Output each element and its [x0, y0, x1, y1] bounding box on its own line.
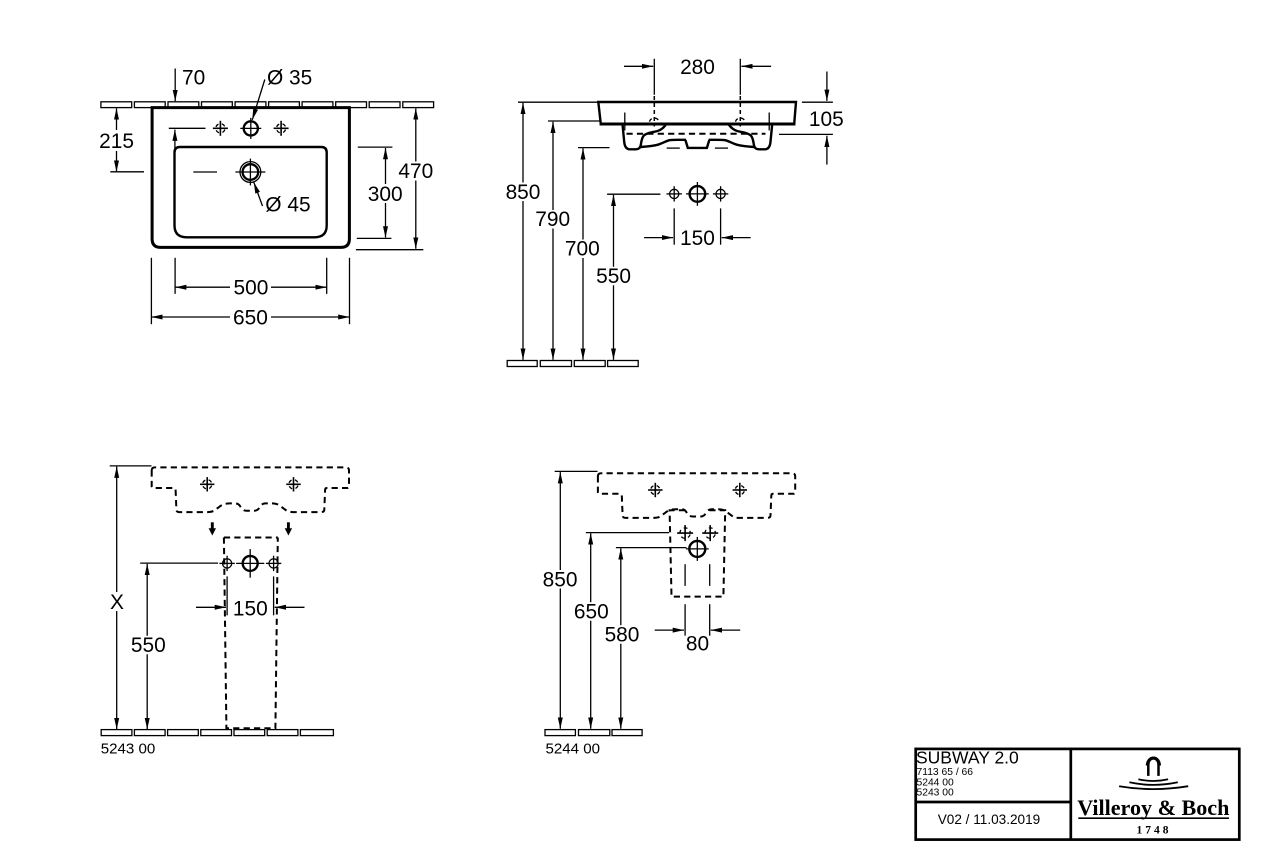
- dim 70 lower arrow: [174, 130, 176, 152]
- hidden basin silhouette (translated copy of view C shape): [598, 473, 795, 518]
- mounting arrow right: [285, 522, 292, 535]
- dim 105: [779, 72, 844, 165]
- cover drain hole: [686, 537, 709, 561]
- svg-text:Villeroy & Boch: Villeroy & Boch: [1077, 795, 1229, 820]
- dim 500: [175, 277, 327, 300]
- hidden bowl edge right: [768, 113, 770, 131]
- svg-text:650: 650: [574, 601, 609, 624]
- floor tile band (view B): [507, 361, 638, 367]
- horizontal divider: [916, 801, 1071, 804]
- wall fixing hole right (view D): [733, 483, 747, 497]
- title block frame: [916, 749, 1240, 840]
- svg-text:550: 550: [596, 265, 631, 288]
- tap hole row: right hole: [713, 186, 728, 201]
- svg-text:580: 580: [605, 624, 640, 647]
- pedestal tap hole centre: [236, 549, 264, 578]
- dim 550 (view C): [130, 563, 219, 729]
- svg-text:5243 00: 5243 00: [101, 740, 156, 757]
- wall fixing hole left (view C): [200, 477, 214, 491]
- dim 580 (view D): [603, 548, 686, 729]
- waste drain hole: [235, 159, 265, 186]
- understructure (left half + mirror): [623, 125, 698, 150]
- dim 150 (view B): [644, 208, 751, 250]
- centre tap hole: [240, 118, 261, 139]
- pedestal tap hole left: [219, 556, 234, 571]
- dim 80: [655, 604, 741, 655]
- dim 850 (view B): [506, 102, 599, 360]
- svg-text:SUBWAY 2.0: SUBWAY 2.0: [916, 748, 1019, 768]
- svg-text:500: 500: [233, 277, 268, 300]
- svg-text:650: 650: [233, 307, 268, 330]
- floor tile band (view D): [545, 730, 642, 736]
- basin rim slab: [598, 102, 796, 124]
- hidden bowl edge left: [624, 113, 626, 131]
- hidden waste pipe lines: [684, 564, 686, 586]
- svg-text:5244 00: 5244 00: [546, 740, 601, 757]
- tap hole centreline: [169, 127, 206, 129]
- svg-text:Ø 45: Ø 45: [265, 194, 310, 217]
- pedestal tap hole right: [266, 556, 281, 571]
- leader line D35: [252, 80, 264, 120]
- siphon cover outline: [670, 510, 726, 596]
- logo underline: [1078, 817, 1229, 819]
- svg-text:790: 790: [535, 208, 570, 231]
- svg-text:X: X: [110, 591, 124, 614]
- tap hole row: left hole: [667, 186, 682, 201]
- left punched tap hole: [213, 121, 228, 136]
- pedestal outline: [224, 537, 278, 539]
- mounting arrow left: [209, 522, 216, 535]
- dim 70 upper arrow: [174, 69, 176, 102]
- wall tile band: [101, 102, 434, 108]
- dim 215: [99, 108, 144, 172]
- drain centreline: [193, 171, 217, 173]
- svg-text:5243 00: 5243 00: [917, 787, 954, 798]
- svg-text:105: 105: [809, 108, 844, 131]
- wall fixing hole right (view C): [286, 477, 300, 491]
- dim 850 (view D): [543, 471, 598, 728]
- svg-text:470: 470: [398, 160, 433, 183]
- dim 650 (view D): [573, 533, 669, 729]
- dim 650: [151, 307, 349, 330]
- svg-text:300: 300: [368, 183, 403, 206]
- inner bowl: [175, 147, 327, 237]
- svg-text:Ø 35: Ø 35: [267, 67, 312, 90]
- svg-text:7113 65 / 66: 7113 65 / 66: [917, 767, 974, 778]
- extension lines below basin: [150, 258, 152, 324]
- svg-text:550: 550: [131, 634, 166, 657]
- svg-text:150: 150: [233, 597, 268, 620]
- dim 550 (view B): [596, 194, 660, 360]
- svg-text:850: 850: [506, 181, 541, 204]
- svg-text:700: 700: [565, 238, 600, 261]
- hidden basin silhouette: [152, 467, 349, 512]
- wall hole arc right: [735, 118, 745, 123]
- svg-text:1748: 1748: [1137, 824, 1172, 836]
- dim 150 (view C): [196, 576, 305, 620]
- right punched tap hole: [274, 121, 289, 136]
- dim 470: [356, 108, 435, 249]
- hole axis dashed left: [653, 96, 655, 127]
- dim X: [106, 466, 152, 729]
- svg-text:280: 280: [680, 56, 715, 79]
- svg-text:70: 70: [182, 67, 205, 90]
- hole axis dashed right: [739, 96, 741, 127]
- hidden mounting line: [627, 133, 766, 135]
- cover tap hole left: [677, 525, 693, 541]
- dim 700 (view B): [565, 148, 610, 360]
- wall hole arc left: [649, 118, 659, 123]
- vertical divider: [1069, 749, 1072, 840]
- leader line D45: [254, 182, 263, 206]
- logo ripple arcs: [1138, 779, 1168, 781]
- dim 300: [357, 147, 404, 238]
- svg-text:V02 / 11.03.2019: V02 / 11.03.2019: [938, 812, 1041, 827]
- svg-text:215: 215: [99, 130, 134, 153]
- dim 790 (view B): [535, 121, 600, 360]
- svg-text:80: 80: [686, 632, 709, 655]
- dim 280 extension lines: [653, 59, 655, 95]
- floor tile band (view C): [101, 730, 333, 736]
- dim 280: [624, 65, 653, 67]
- logo fountain arch: [1147, 757, 1161, 776]
- cover tap hole right: [702, 525, 718, 541]
- basin outer rim: [152, 108, 349, 248]
- svg-text:850: 850: [543, 569, 578, 592]
- wall fixing hole left (view D): [648, 483, 662, 497]
- tap hole row: centre hole: [686, 182, 709, 206]
- svg-text:150: 150: [680, 227, 715, 250]
